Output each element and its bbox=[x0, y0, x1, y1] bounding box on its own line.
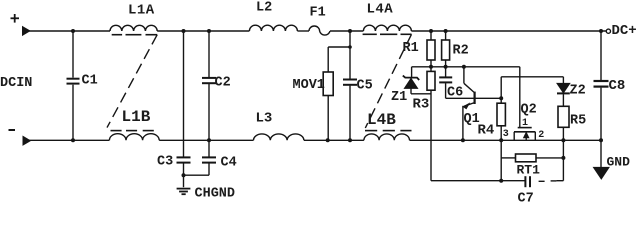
node MOV1 bottom bbox=[326, 138, 330, 142]
thermistor RT1 bbox=[501, 154, 563, 162]
node R2 top bbox=[444, 29, 448, 33]
wire top rail F1 to L4A bbox=[330, 30, 363, 32]
svg-text:Q2: Q2 bbox=[521, 103, 537, 118]
svg-text:C7: C7 bbox=[518, 192, 534, 204]
svg-text:L3: L3 bbox=[256, 111, 273, 127]
node DCIN+ input arrow bbox=[23, 27, 30, 36]
wire top rail L1A to L2 bbox=[157, 30, 249, 32]
wire bottom rail L4B to GND bbox=[410, 139, 602, 141]
svg-text:L1B: L1B bbox=[122, 108, 151, 126]
svg-text:L4A: L4A bbox=[367, 2, 394, 18]
wire rail B (R4 top to Z2 top) bbox=[501, 76, 563, 78]
transistor Q1 bbox=[463, 67, 475, 141]
varistor MOV1 bbox=[323, 47, 350, 140]
node C8 top bbox=[599, 29, 603, 33]
node R2/C6 rail A bbox=[444, 65, 448, 69]
wire rail A (R1/R2 bottom node) bbox=[412, 66, 520, 68]
core diagonal L1 (dashed) bbox=[107, 35, 157, 128]
svg-text:C3: C3 bbox=[157, 155, 173, 170]
capacitor C3 bbox=[177, 157, 191, 187]
resistor R3 bbox=[427, 67, 435, 181]
wire bottom rail left segment bbox=[29, 139, 109, 141]
node C5 bottom bbox=[348, 138, 352, 142]
svg-text:2: 2 bbox=[538, 130, 544, 141]
wire Z2/R5 vertical below rail bbox=[562, 140, 564, 180]
svg-text:R4: R4 bbox=[478, 123, 495, 139]
svg-text:DC+: DC+ bbox=[612, 23, 637, 39]
svg-text:R3: R3 bbox=[413, 97, 430, 113]
core bar of L4B (dashed) bbox=[365, 130, 412, 132]
inductor L3 bbox=[254, 134, 304, 140]
svg-text:L4B: L4B bbox=[367, 111, 396, 129]
svg-text:3: 3 bbox=[503, 129, 509, 140]
wire bottom rail L1B to L3 bbox=[159, 139, 253, 141]
inductor L1B bbox=[109, 134, 159, 141]
wire top rail L2 to F1 bbox=[297, 30, 309, 32]
node RT1 left bottom bbox=[499, 179, 503, 183]
svg-text:C4: C4 bbox=[221, 156, 237, 171]
node C2/C4 bottom bbox=[207, 138, 211, 142]
node C2 top bbox=[207, 29, 211, 33]
node Q1 collector rail A bbox=[462, 65, 466, 69]
capacitor C6 bbox=[439, 67, 452, 99]
inductor L4A bbox=[363, 25, 411, 31]
node GND top bbox=[599, 138, 603, 142]
svg-text:C8: C8 bbox=[609, 78, 626, 94]
svg-text:GND: GND bbox=[607, 155, 631, 170]
inductor L2 bbox=[249, 25, 297, 31]
node - (minus terminal label) bbox=[9, 129, 16, 131]
zener Z1 bbox=[403, 67, 431, 94]
node Q1 emitter bottom bbox=[461, 138, 465, 142]
svg-text:L2: L2 bbox=[256, 1, 272, 16]
node CHGND junction bbox=[182, 173, 186, 177]
node MOV1 jog bbox=[348, 45, 352, 49]
svg-text:Z2: Z2 bbox=[570, 84, 586, 99]
inductor L4B bbox=[364, 134, 410, 140]
svg-text:L1A: L1A bbox=[128, 3, 155, 19]
capacitor C5 bbox=[343, 31, 357, 140]
svg-text:F1: F1 bbox=[310, 6, 326, 21]
transistor Q2 (MOSFET) bbox=[514, 128, 535, 141]
core bar of L1B (dashed) bbox=[111, 130, 154, 132]
node DC+ terminal circle bbox=[606, 29, 610, 33]
wire RT1 left vertical bbox=[500, 140, 502, 180]
svg-text:C6: C6 bbox=[447, 86, 463, 101]
svg-text:CHGND: CHGND bbox=[195, 187, 236, 202]
wire Q1 base line (C6 to R4 top) bbox=[446, 97, 502, 99]
resistor R2 bbox=[442, 31, 450, 67]
svg-text:MOV1: MOV1 bbox=[293, 78, 325, 93]
zener Z2 bbox=[557, 77, 570, 107]
capacitor C1 bbox=[67, 31, 80, 140]
node R4 bottom bbox=[499, 138, 503, 142]
node C1 top bbox=[71, 29, 75, 33]
capacitor C7 bbox=[525, 176, 530, 187]
resistor R4 bbox=[497, 77, 505, 141]
resistor R5 bbox=[558, 106, 569, 140]
svg-text:DCIN: DCIN bbox=[0, 76, 32, 91]
ground GND arrow bbox=[594, 140, 610, 179]
node + (plus terminal label) bbox=[11, 14, 20, 23]
capacitor C8 bbox=[594, 31, 609, 140]
wire bottom rail L3 to L4B bbox=[304, 139, 364, 141]
svg-text:RT1: RT1 bbox=[517, 163, 541, 178]
svg-text:R5: R5 bbox=[570, 114, 586, 129]
wire C3 branch vertical (top rail through bottom rail to C3) bbox=[183, 31, 185, 157]
core bar of L4A (dashed) bbox=[363, 33, 412, 35]
svg-text:R1: R1 bbox=[403, 41, 419, 56]
node R4 top bbox=[499, 96, 503, 100]
node C3 top bbox=[182, 29, 186, 33]
node R1 rail A bbox=[429, 65, 433, 69]
wire C7 right dashed segment bbox=[539, 180, 564, 183]
wire top rail L4A to DC+ bbox=[411, 30, 606, 32]
node DCIN- input arrow bbox=[23, 136, 30, 145]
svg-text:C5: C5 bbox=[357, 79, 373, 94]
node R1 top bbox=[429, 29, 433, 33]
capacitor C4 bbox=[184, 140, 217, 175]
inductor L1A bbox=[110, 25, 157, 31]
svg-text:C1: C1 bbox=[82, 74, 98, 89]
svg-text:1: 1 bbox=[522, 118, 528, 129]
core diagonal L4 (dashed) bbox=[365, 34, 411, 128]
svg-text:R2: R2 bbox=[453, 44, 469, 59]
node R5 bottom bbox=[561, 138, 565, 142]
wire R3 bottom jog to RT1 left node bbox=[431, 180, 525, 182]
fuse F1 bbox=[309, 26, 330, 35]
svg-text:Z1: Z1 bbox=[391, 90, 407, 105]
svg-text:C2: C2 bbox=[215, 76, 231, 91]
wire top rail left segment bbox=[29, 30, 111, 32]
node RT1 right bbox=[561, 156, 565, 160]
ground CHGND symbol bbox=[177, 189, 191, 195]
capacitor C2 bbox=[202, 31, 216, 140]
core bar of L1A (dashed) bbox=[112, 34, 158, 36]
wire Q2 gate drop from rail A bbox=[519, 67, 521, 127]
node C5 top bbox=[348, 29, 352, 33]
node C1 bottom bbox=[71, 138, 75, 142]
resistor R1 bbox=[427, 31, 435, 67]
